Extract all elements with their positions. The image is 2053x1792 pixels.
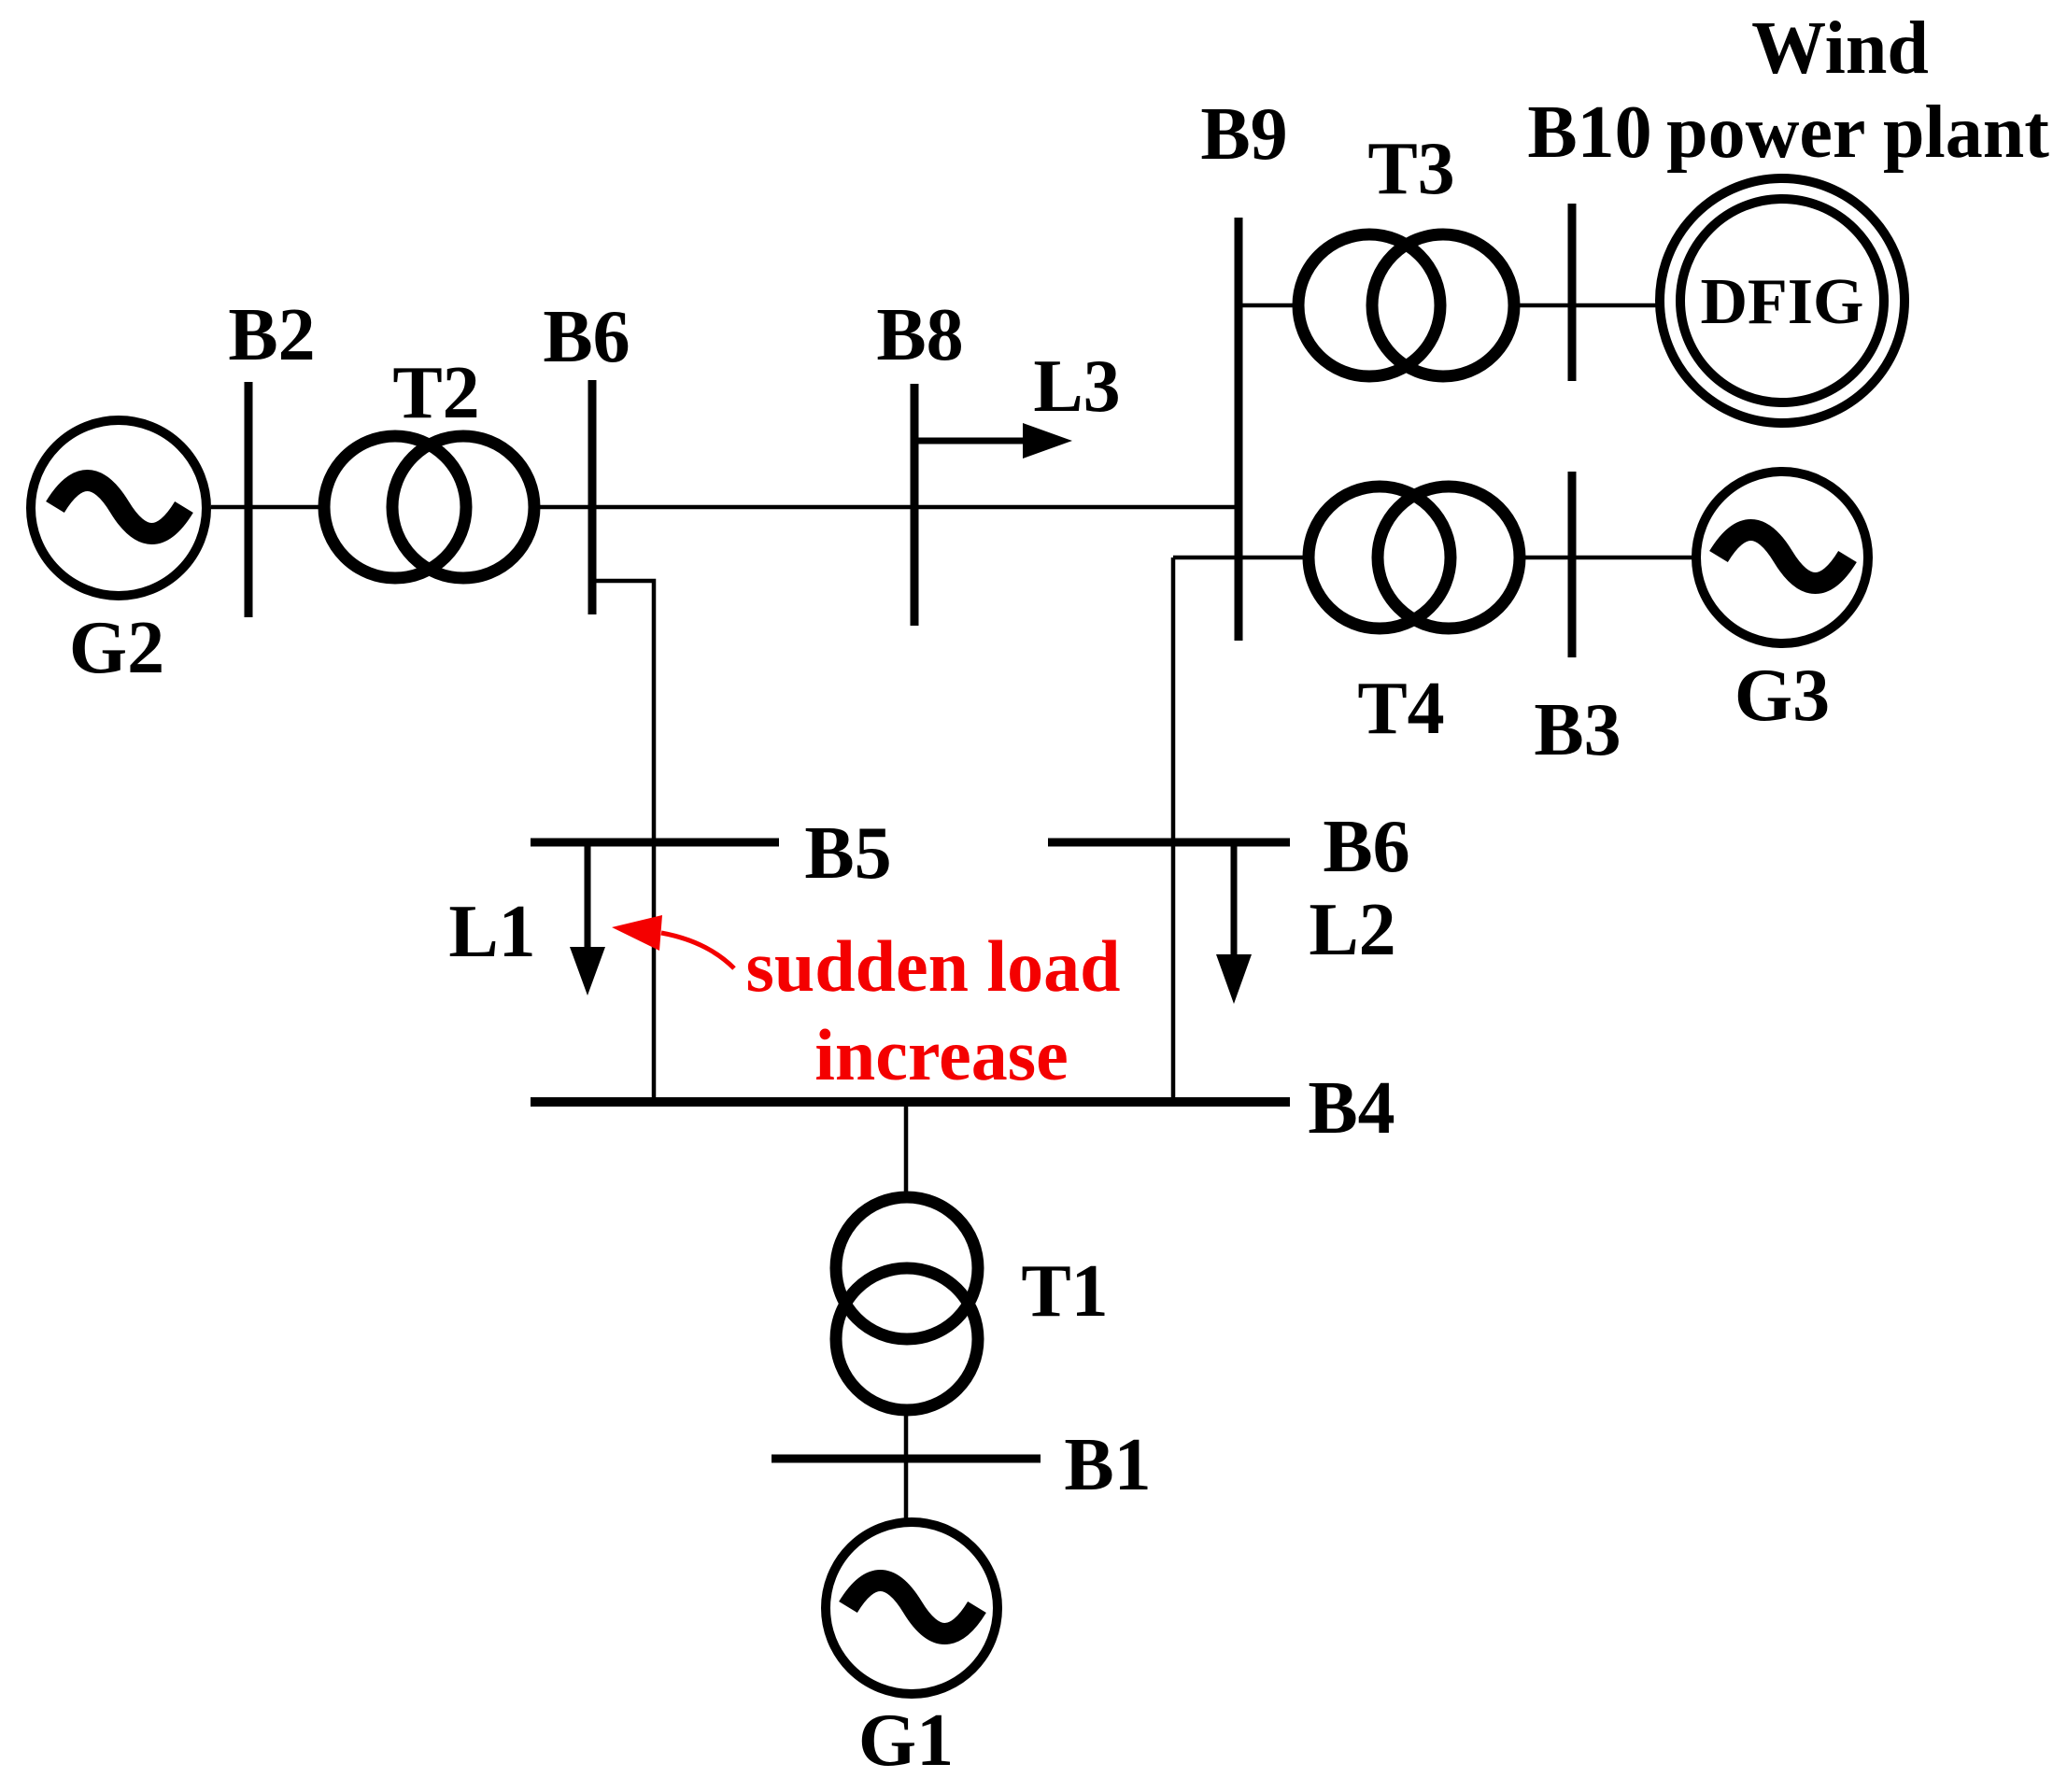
bus B3	[1568, 472, 1577, 657]
wire T1 stem B4-T1-B1-G1	[904, 1102, 909, 1520]
load L3 arrow	[916, 423, 1072, 459]
svg-text:T2: T2	[392, 352, 479, 434]
svg-text:L1: L1	[448, 891, 535, 973]
svg-text:T1: T1	[1021, 1250, 1108, 1333]
svg-text:G1: G1	[858, 1700, 954, 1782]
svg-text:L2: L2	[1309, 889, 1395, 971]
transformer T4	[1303, 481, 1525, 634]
svg-text:L3: L3	[1033, 346, 1120, 428]
transformer T1	[830, 1192, 984, 1416]
svg-text:B10: B10	[1527, 92, 1651, 174]
svg-text:power plant: power plant	[1666, 92, 2049, 174]
svg-text:T3: T3	[1367, 128, 1454, 210]
svg-text:B1: B1	[1064, 1424, 1151, 1506]
load L1 arrow	[570, 842, 605, 995]
svg-text:sudden load: sudden load	[745, 925, 1120, 1007]
svg-text:B3: B3	[1534, 689, 1621, 771]
transformer T3	[1293, 229, 1520, 382]
generator G2	[31, 420, 206, 596]
wire stub from B6	[592, 581, 654, 1102]
svg-text:B8: B8	[876, 294, 963, 376]
wire vertical T4-branch to B4	[1171, 557, 1176, 1102]
svg-text:G3: G3	[1734, 655, 1830, 737]
svg-text:T4: T4	[1357, 668, 1444, 750]
svg-text:B4: B4	[1308, 1067, 1395, 1150]
bus B1	[772, 1455, 1041, 1463]
svg-text:G2: G2	[69, 607, 164, 689]
wire T4 row to G3	[1173, 556, 1694, 560]
svg-text:B6: B6	[1323, 806, 1409, 888]
wire main horizontal G2-B2-T2-B6-B8-B9	[211, 505, 1239, 510]
bus B10	[1568, 204, 1577, 381]
svg-text:DFIG: DFIG	[1701, 266, 1864, 338]
svg-text:B5: B5	[804, 812, 891, 895]
svg-text:B2: B2	[228, 294, 315, 376]
red annotation arrow (sudden load increase)	[612, 915, 734, 968]
load L2 arrow	[1216, 842, 1252, 1004]
bus B8	[911, 384, 919, 626]
bus B5	[531, 839, 779, 847]
bus B4	[531, 1097, 1290, 1107]
bus B6 (top)	[588, 380, 597, 614]
generator G1	[826, 1522, 998, 1694]
svg-text:B6: B6	[543, 296, 630, 378]
svg-text:B9: B9	[1200, 93, 1287, 176]
wind generator DFIG	[1660, 178, 1904, 423]
generator G3	[1696, 472, 1868, 643]
wire B9-T3-B10-DFIG	[1239, 303, 1656, 308]
transformer T2	[319, 430, 540, 584]
bus B2	[245, 382, 253, 617]
svg-text:increase: increase	[814, 1014, 1068, 1095]
svg-text:Wind: Wind	[1751, 7, 1929, 90]
bus B6 (lower)	[1048, 839, 1290, 847]
bus B9	[1235, 218, 1243, 641]
